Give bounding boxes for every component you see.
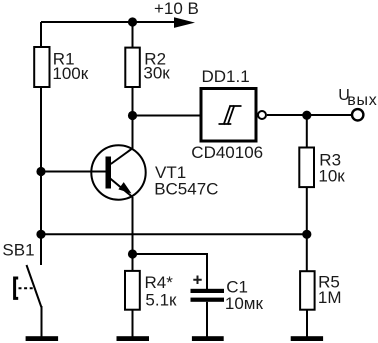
svg-text:30к: 30к xyxy=(143,64,170,83)
power +10V arrow xyxy=(174,17,195,28)
wire bottom rail xyxy=(41,233,307,235)
node output junction R3 xyxy=(302,111,311,120)
resistor R1 xyxy=(34,47,49,87)
svg-text:10мк: 10мк xyxy=(225,294,264,313)
switch SB1 blade xyxy=(27,265,42,308)
svg-text:100к: 100к xyxy=(52,64,88,83)
svg-text:CD40106: CD40106 xyxy=(191,143,263,162)
wire collector xyxy=(132,116,134,149)
resistor R3 xyxy=(299,148,314,188)
node emitter/R4/C1 junction xyxy=(128,249,137,258)
wire R2 bottom to collector node xyxy=(132,87,134,116)
svg-text:1M: 1M xyxy=(318,288,342,307)
switch SB1 actuator bracket xyxy=(15,278,19,298)
ground R4 xyxy=(117,336,150,341)
wire R3 bottom xyxy=(306,187,308,234)
transistor Q1 VT1 circle xyxy=(91,145,145,199)
wire top rail xyxy=(41,21,176,23)
capacitor C1 plus sign xyxy=(193,276,201,285)
hysteresis symbol xyxy=(219,105,242,125)
resistor R2 xyxy=(125,48,140,87)
wire R5 bottom xyxy=(306,310,308,337)
op-amp U1 DD1.1 Schmitt trigger box xyxy=(201,89,256,142)
wire R3 top xyxy=(306,115,308,147)
wire R2 top xyxy=(132,22,134,48)
node SB1 junction xyxy=(36,230,45,239)
svg-text:DD1.1: DD1.1 xyxy=(202,67,250,86)
wire C1 branch xyxy=(133,254,208,289)
wire SB1 top contact xyxy=(40,234,42,265)
svg-text:вых: вых xyxy=(347,92,377,109)
wire base xyxy=(41,171,106,173)
svg-text:5.1к: 5.1к xyxy=(145,290,177,309)
wire SB1 bottom xyxy=(41,306,43,337)
wire R4 bottom xyxy=(132,310,134,337)
svg-text:R4*: R4* xyxy=(145,273,174,292)
ground R5 xyxy=(291,336,323,341)
transistor emitter arrow xyxy=(118,182,131,193)
capacitor C1 plates xyxy=(191,289,225,293)
ground SB1 xyxy=(26,336,59,341)
svg-text:SB1: SB1 xyxy=(2,241,34,260)
wire DD1.1 output xyxy=(267,114,351,116)
inverter bubble xyxy=(258,111,266,119)
wire DD1.1 input xyxy=(133,115,202,117)
output terminal Uвых xyxy=(352,109,363,120)
node R2 / input / collector junction xyxy=(128,111,137,120)
resistor R4 xyxy=(125,271,140,310)
wire C1 bottom xyxy=(206,302,208,337)
node R3/R5 junction xyxy=(302,230,311,239)
wire emitter down xyxy=(132,197,134,254)
wire R1 top xyxy=(40,22,42,47)
wire R4 top xyxy=(132,254,134,271)
transistor collector line xyxy=(111,148,133,164)
svg-text:+10 В: +10 В xyxy=(154,0,199,18)
svg-text:BC547C: BC547C xyxy=(154,180,218,199)
node base junction xyxy=(36,167,45,176)
resistor R5 xyxy=(300,271,315,310)
ground C1 xyxy=(192,336,224,341)
transistor base bar xyxy=(106,157,112,189)
transistor emitter line xyxy=(110,178,133,197)
node top junction R2 xyxy=(128,17,137,26)
wire R1 bottom to base node and bottom rail xyxy=(40,88,42,235)
svg-text:10к: 10к xyxy=(318,166,345,185)
wire R5 top xyxy=(306,234,308,271)
switch SB1 actuator dashed link xyxy=(19,287,35,289)
